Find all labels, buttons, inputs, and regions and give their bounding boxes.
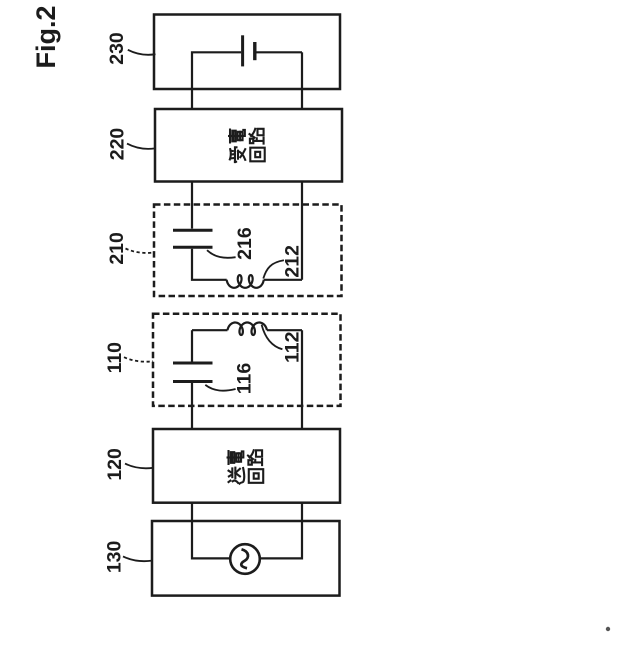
svg-text:120: 120 bbox=[104, 448, 126, 481]
svg-text:220: 220 bbox=[107, 128, 129, 161]
svg-text:112: 112 bbox=[281, 331, 303, 363]
svg-text:Fig.2: Fig.2 bbox=[31, 5, 61, 68]
svg-text:230: 230 bbox=[106, 32, 128, 65]
svg-text:216: 216 bbox=[234, 227, 256, 260]
svg-text:116: 116 bbox=[234, 363, 256, 395]
svg-text:110: 110 bbox=[104, 342, 126, 374]
svg-text:210: 210 bbox=[106, 232, 128, 265]
svg-text:130: 130 bbox=[103, 540, 125, 573]
svg-text:212: 212 bbox=[281, 245, 303, 278]
